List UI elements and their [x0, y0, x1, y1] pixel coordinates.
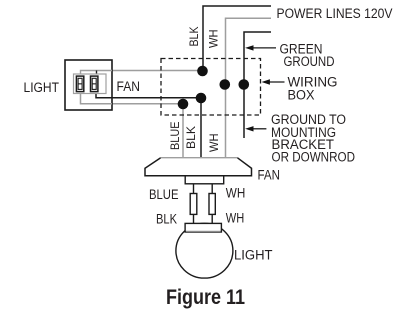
wire nut D5 (BLUE light) [178, 99, 189, 110]
switch enclosure box [65, 60, 112, 110]
wire gray switch feed to D1 [81, 71, 204, 75]
wire BLK power (vertical + horizontal to label) [203, 6, 271, 71]
svg-text:LIGHT: LIGHT [24, 80, 60, 95]
svg-text:BOX: BOX [288, 87, 315, 102]
svg-text:WH: WH [207, 30, 221, 49]
wire fan switched BLK [96, 92, 201, 98]
svg-text:BLUE: BLUE [168, 122, 182, 151]
wire nut D2 (WH) [220, 79, 231, 90]
svg-text:Figure 11: Figure 11 [166, 286, 245, 309]
svg-text:BLK: BLK [187, 27, 201, 47]
connector right [209, 194, 215, 215]
svg-text:BLK: BLK [184, 126, 198, 149]
wire stub to right connector [211, 184, 213, 194]
wire WH power/neutral (top to canopy) [226, 18, 272, 157]
svg-text:POWER LINES 120V: POWER LINES 120V [277, 6, 393, 21]
svg-text:OR DOWNROD: OR DOWNROD [272, 150, 356, 165]
wire BLK down to canopy [200, 98, 202, 158]
svg-text:BLK: BLK [156, 212, 177, 227]
svg-text:FAN: FAN [117, 79, 141, 94]
svg-text:WH: WH [207, 134, 221, 153]
wire GREEN ground [244, 32, 271, 138]
wire right connector to lamp [211, 214, 213, 223]
wiring box (dashed) [161, 59, 261, 116]
arrow to green ground [245, 45, 276, 50]
wire left connector to lamp [193, 214, 195, 223]
fan canopy [145, 158, 252, 176]
switch S1 (light) [76, 76, 83, 92]
wire BLUE down to canopy [182, 104, 184, 158]
wire switch S1 top stub (over box fill) [81, 71, 113, 75]
wire switch S1 bottom stub to light BLUE (over box fill) [81, 92, 113, 104]
wire light switched BLUE feed [81, 92, 184, 104]
switch plate [74, 74, 107, 94]
connector left [190, 194, 197, 215]
wire switch S2 bottom stub to fan BLK (over box fill) [96, 92, 112, 98]
wire switch-top stub right [96, 71, 98, 75]
svg-text:GROUND: GROUND [284, 54, 335, 69]
arrow to ground wire [245, 126, 266, 131]
lamp cap glass line [186, 230, 221, 232]
wire switch S2 top stub (over box fill) [96, 71, 98, 75]
svg-text:LIGHT: LIGHT [234, 248, 273, 263]
wire nut D4 (BLK fan) [196, 93, 207, 104]
fan switch housing [185, 176, 224, 184]
svg-text:FAN: FAN [258, 167, 281, 182]
svg-text:WH: WH [226, 211, 245, 226]
wire nut D3 (green) [239, 79, 250, 90]
arrow to wiring box [262, 79, 285, 84]
wire stub to left connector [193, 184, 195, 194]
light bulb globe [176, 223, 233, 278]
svg-text:WH: WH [226, 186, 246, 201]
lamp cap [185, 223, 221, 232]
switch S2 (fan) [91, 76, 98, 92]
wire nut D1 [197, 66, 208, 77]
svg-text:BLUE: BLUE [149, 187, 179, 202]
